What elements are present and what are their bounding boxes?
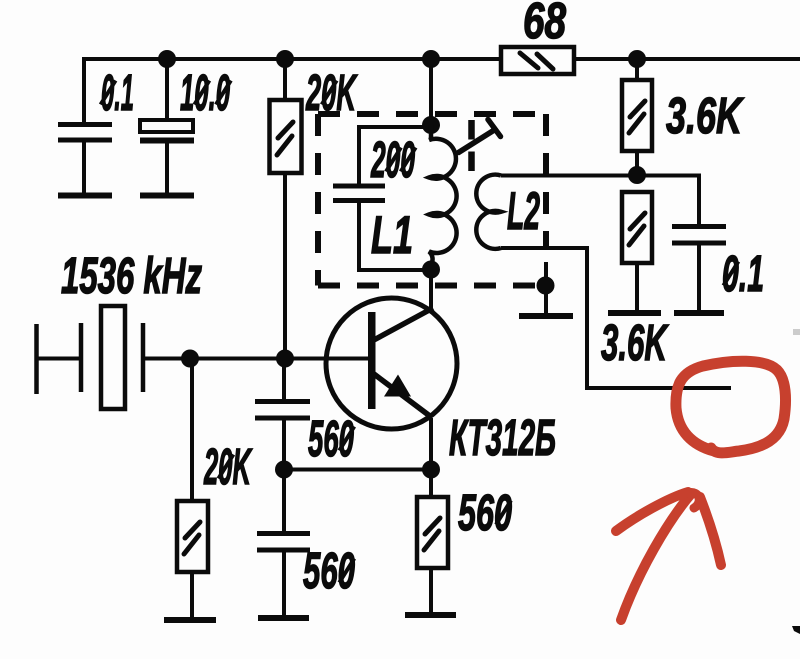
junction dot E (R3/R4/C3)	[628, 166, 646, 184]
capacitor C5 560 upper stem	[282, 359, 286, 400]
svg-text:3.6K: 3.6K	[666, 87, 744, 144]
resistor R2 68 body	[501, 47, 574, 74]
red annotation arrow tail	[621, 494, 691, 620]
ground under R5	[164, 617, 216, 623]
capacitor C1 0.1 plates	[58, 125, 112, 141]
ground bar shield	[519, 313, 573, 319]
resistor R3 3.6K body	[622, 80, 652, 151]
crystal ZQ1 right lead	[143, 357, 190, 361]
red annotation circle around output	[676, 361, 786, 453]
resistor R4 3.6K power slashes	[629, 213, 645, 245]
crystal ZQ1 body	[101, 306, 125, 409]
svg-text:0.1: 0.1	[722, 245, 764, 302]
resistor R3 3.6K power slashes	[629, 101, 645, 133]
crystal ZQ1 left plate	[79, 323, 84, 392]
resistor R2 68 power slashes	[520, 53, 553, 69]
resistor R6 560 lower lead	[429, 568, 433, 615]
wire emitter node	[284, 468, 431, 472]
capacitor C4 200 bottom wire	[359, 203, 431, 270]
transistor Q1 emitter arrow	[384, 375, 411, 397]
red annotation arrow left barb	[616, 492, 688, 531]
junction dot K (C5/C6 node)	[275, 461, 293, 479]
red annotation arrow apex loop	[688, 493, 699, 508]
crystal ZQ1 terminal bar	[34, 324, 39, 394]
resistor R1 20K body	[270, 100, 302, 173]
svg-text:68: 68	[523, 0, 566, 49]
slashed zero marks	[101, 81, 739, 583]
wire collector lead	[429, 270, 433, 309]
capacitor C5 560 plates	[255, 402, 310, 419]
resistor R5 20K body	[177, 501, 208, 572]
capacitor C4 200 plates	[333, 186, 385, 201]
junction dot G (L1 top)	[422, 116, 440, 134]
junction dot L (emitter node)	[422, 461, 440, 479]
resistor R6 560 upper lead	[429, 470, 433, 498]
junction dot A (C2 / rail)	[158, 50, 176, 68]
adjustment slug diagonal	[459, 131, 494, 153]
capacitor C2 10.0 lower lead	[165, 143, 169, 193]
inductor L1 winding	[429, 125, 457, 268]
capacitor C3 0.1 plates	[672, 227, 726, 244]
wire base node	[190, 357, 368, 361]
wire top supply rail	[84, 57, 800, 61]
resistor R5 20K upper lead	[190, 359, 194, 502]
wire L2 bottom to output	[501, 248, 731, 388]
shield box dashed right edge	[543, 114, 549, 247]
resistor R1 20K power slashes	[277, 122, 293, 155]
shield box dashed top edge	[318, 111, 546, 117]
capacitor C6 560 lower stem	[282, 552, 286, 618]
svg-text:3.6K: 3.6K	[601, 314, 669, 371]
ground under C1	[58, 193, 112, 199]
svg-text:1536 kHz: 1536 kHz	[61, 247, 202, 304]
resistor R5 20K power slashes	[184, 522, 200, 554]
transistor Q1 collector diagonal	[372, 308, 433, 341]
adjustable core dashes	[468, 120, 475, 171]
capacitor C2 10.0 minus plate	[140, 138, 194, 144]
capacitor C5 560 lower stem	[282, 420, 286, 470]
wire emitter lead	[429, 418, 433, 470]
capacitor C3 0.1 lower lead	[697, 245, 701, 313]
edge mark bottom right	[792, 626, 800, 634]
red annotation arrow right barb	[700, 497, 721, 565]
transistor Q1 emitter diagonal	[372, 373, 431, 417]
svg-text:L1: L1	[371, 206, 413, 265]
resistor R1 20K lower lead / wire to base node	[283, 173, 287, 359]
resistor R6 560 body	[417, 497, 448, 568]
ground under R4	[608, 310, 661, 316]
ground under R6	[405, 612, 456, 618]
capacitor C6 560 upper stem	[282, 470, 286, 532]
ground under C3	[674, 310, 724, 316]
resistor R3 3.6K lower lead	[635, 151, 639, 175]
resistor R6 560 power slashes	[424, 518, 440, 550]
resistor R1 20K upper lead	[283, 59, 287, 100]
wire rail to L1 top	[429, 59, 433, 125]
junction dot F (shield / ground)	[537, 277, 555, 295]
capacitor C2 10.0 lead	[165, 59, 169, 120]
ground under C6	[258, 615, 309, 621]
adjustment slug T-bar	[488, 120, 501, 137]
wire mid-right node (L2 top / R3 / R4 / C3)	[501, 176, 699, 225]
junction dot D (R3 / rail)	[628, 50, 646, 68]
crystal ZQ1 right plate	[141, 323, 146, 392]
capacitor C2 10.0 plus plate box	[140, 120, 193, 132]
junction dot H (L1 bottom / collector)	[422, 261, 440, 279]
svg-text:КТ312Б: КТ312Б	[449, 409, 556, 466]
resistor R4 3.6K body	[622, 192, 652, 263]
resistor R4 3.6K lower lead	[635, 263, 639, 313]
capacitor C1 0.1 lower lead	[82, 142, 86, 193]
capacitor C6 560 plates	[257, 534, 310, 551]
edge smudge right	[793, 329, 800, 335]
crystal ZQ1 left lead	[37, 357, 80, 361]
junction dot I (crystal / R5)	[181, 350, 199, 368]
svg-text:L2: L2	[507, 182, 540, 241]
transistor Q1 base bar	[368, 312, 376, 409]
capacitor C4 200 top wire	[359, 127, 431, 184]
junction dot B (R1 / rail)	[276, 50, 294, 68]
junction dot C (L1 / rail)	[422, 50, 440, 68]
shield ground stem	[544, 262, 548, 316]
ground under C2	[140, 193, 194, 199]
shield box dashed bottom edge	[318, 283, 546, 289]
resistor R5 20K lower lead	[190, 572, 194, 620]
capacitor C1 0.1 lead	[82, 57, 86, 122]
transistor Q1 circle	[326, 298, 457, 429]
resistor R3 3.6K upper lead	[635, 59, 639, 80]
shield box dashed left edge	[315, 114, 321, 286]
junction dot J (base node)	[276, 350, 294, 368]
inductor L2 winding	[476, 175, 501, 249]
